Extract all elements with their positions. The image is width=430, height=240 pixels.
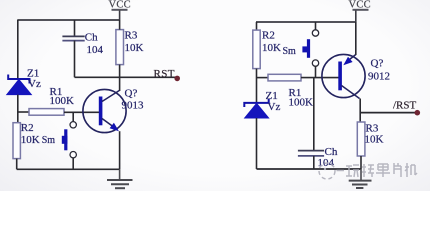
wire: collector down [359, 99, 361, 123]
capacitor Ch (right): plates [298, 151, 324, 156]
wire: rail R2-to-zener [256, 69, 258, 103]
switch Sm (left): bottom terminal [70, 152, 76, 158]
wire: R1 left lead (right) [257, 77, 269, 79]
ground (right) [349, 169, 372, 188]
capacitor Ch (left): plates [62, 36, 84, 40]
resistor R3 (left) body [116, 30, 124, 65]
wire: VCC to emitter [355, 22, 357, 55]
svg-text:9013: 9013 [122, 100, 145, 112]
wire: R1 right lead to base (right) [301, 77, 339, 79]
char 片 [394, 163, 401, 177]
char 转 [362, 164, 374, 177]
zener diode Z1 (right) [244, 99, 268, 119]
transistor Q1 base bar [99, 97, 103, 126]
wire: top rail (left) [17, 19, 119, 21]
node RST red dot [174, 76, 180, 82]
resistor R2 (right) body [253, 30, 260, 69]
switch Sm (right): actuator bar [302, 39, 310, 58]
svg-text:Q?: Q? [371, 58, 384, 70]
node /RST red dot [415, 110, 421, 116]
transistor Q1 emitter line with arrow [102, 119, 119, 132]
zener diode Z1 (left) [7, 75, 32, 95]
wire: bottom rail (left) [17, 168, 120, 170]
wire: R3 bottom to collector [119, 65, 121, 91]
svg-text:R2: R2 [262, 29, 275, 41]
svg-text:Q?: Q? [125, 88, 138, 100]
transistor Q1 collector line [102, 91, 119, 102]
svg-text:10K: 10K [365, 134, 384, 146]
wire: switch top stub [72, 112, 74, 121]
wire: top rail (right) [256, 21, 356, 23]
switch Sm (left): top terminal [70, 122, 76, 128]
resistor R3 (right) body [357, 122, 365, 156]
wire: /RST node line [360, 112, 416, 114]
wire: R3 top lead [119, 20, 121, 30]
svg-text:RST: RST [154, 68, 175, 80]
resistor R2 (left) body [13, 123, 20, 159]
capacitor Ch (left): bottom lead [74, 41, 76, 78]
resistor R1 (right) body [268, 74, 301, 81]
capacitor Ch (right): top lead [313, 78, 315, 150]
resistor R1 (left) body [29, 109, 64, 116]
svg-text:Vz: Vz [268, 101, 281, 113]
wire: left rail upper segment [17, 20, 19, 79]
switch Sm (right): top terminal [312, 30, 318, 36]
svg-text:R2: R2 [21, 122, 34, 134]
transistor Q1 circle [83, 89, 126, 132]
VCC power symbol (left) [109, 0, 132, 20]
wire: R1 left lead [18, 111, 29, 113]
watermark 玩转单片机 [319, 163, 417, 179]
wire: rail zener-to-bottom [256, 118, 258, 169]
transistor Q2 circle [322, 54, 365, 97]
wire: switch bottom stub [72, 158, 74, 169]
char 玩 [346, 165, 359, 177]
switch Sm (left): actuator bar [62, 129, 68, 150]
svg-text:10KSm: 10KSm [262, 42, 296, 57]
char 单 [376, 164, 390, 177]
ground (left) [107, 169, 133, 188]
transistor Q2 base bar [338, 62, 342, 91]
svg-text:R3: R3 [366, 122, 379, 134]
svg-text:R3: R3 [125, 30, 138, 42]
svg-text:Vz: Vz [28, 78, 41, 90]
VCC power symbol (right) [349, 0, 372, 22]
svg-text:/RST: /RST [393, 100, 417, 112]
switch Sm (right): bottom terminal [312, 60, 318, 66]
svg-text:Ch: Ch [85, 31, 98, 43]
wire: bottom rail (right) [257, 168, 362, 170]
svg-text:100K: 100K [50, 95, 75, 107]
wire: switch top stub (right) [315, 22, 317, 30]
svg-text:10KSm: 10KSm [21, 134, 56, 146]
wire: R3 bottom lead (right) [360, 156, 362, 169]
capacitor Ch (right): bottom lead [313, 156, 315, 169]
wire: emitter down [119, 131, 121, 169]
svg-text:100K: 100K [289, 96, 314, 108]
wire: switch bottom stub (right) [315, 66, 317, 77]
svg-text:9012: 9012 [368, 71, 390, 83]
wire: R2 bottom lead [16, 159, 18, 170]
transistor Q2 emitter line with arrow (PNP) [343, 55, 356, 66]
svg-text:104: 104 [87, 44, 104, 56]
capacitor Ch (left): top lead [74, 20, 76, 36]
wire: left rail lower segment [17, 95, 19, 123]
wire: R1 right lead to base [64, 111, 99, 113]
transistor Q2 collector line [342, 86, 360, 99]
svg-text:10K: 10K [125, 42, 144, 54]
char 机 [405, 163, 417, 177]
wire: right left-rail to R2 [256, 22, 258, 30]
wire: RST node line [75, 76, 177, 78]
